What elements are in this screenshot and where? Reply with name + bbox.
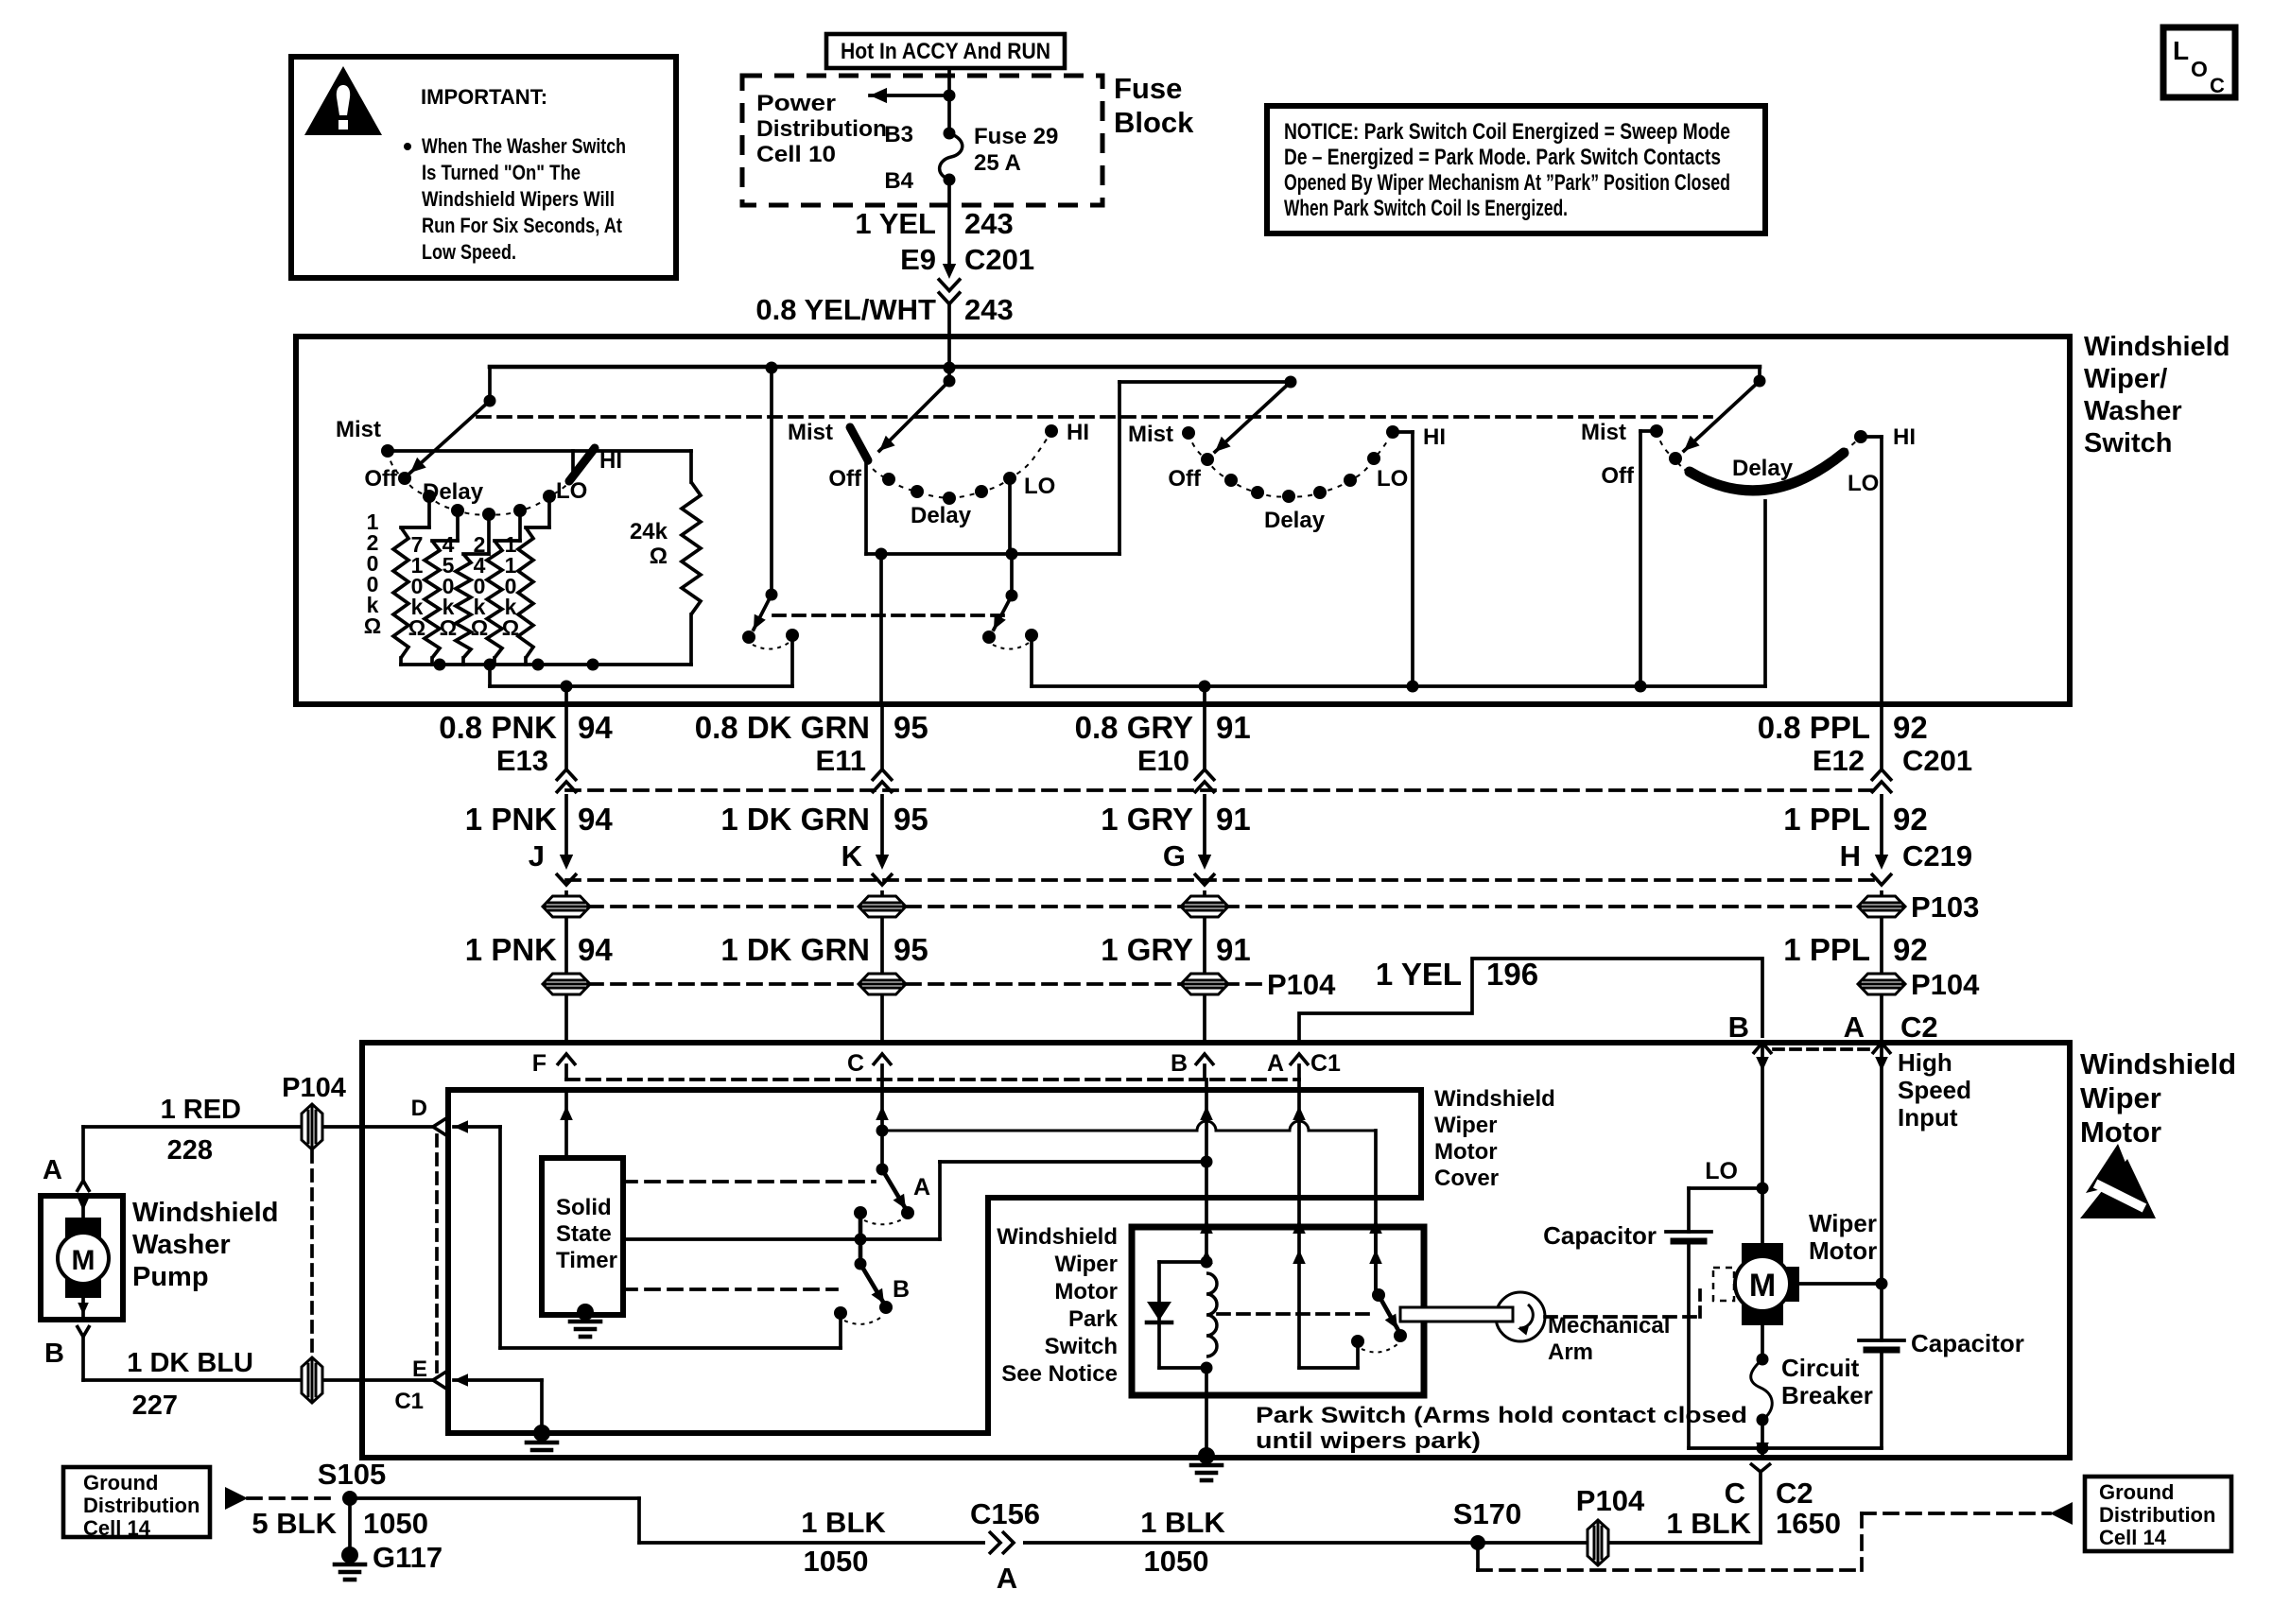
svg-text:Switch: Switch — [1045, 1334, 1118, 1359]
svg-text:D: D — [411, 1096, 427, 1121]
svg-text:High: High — [1898, 1048, 1952, 1077]
svg-text:Ω: Ω — [364, 613, 381, 638]
svg-text:C: C — [1725, 1477, 1745, 1510]
svg-text:Off: Off — [1601, 463, 1635, 489]
svg-text:228: 228 — [167, 1135, 213, 1166]
svg-text:Run For Six Seconds, At: Run For Six Seconds, At — [422, 214, 623, 237]
svg-text:When The Washer Switch: When The Washer Switch — [422, 134, 626, 158]
svg-text:0.8 YEL/WHT: 0.8 YEL/WHT — [755, 293, 936, 326]
svg-text:1 GRY: 1 GRY — [1101, 932, 1193, 967]
svg-text:B: B — [1728, 1011, 1749, 1044]
svg-text:Mist: Mist — [1128, 422, 1173, 447]
svg-text:Is Turned "On" The: Is Turned "On" The — [422, 161, 581, 184]
svg-text:92: 92 — [1893, 802, 1928, 837]
svg-text:E10: E10 — [1137, 744, 1189, 777]
svg-text:Capacitor: Capacitor — [1911, 1329, 2024, 1357]
svg-text:Wiper: Wiper — [1434, 1113, 1497, 1138]
svg-text:Arm: Arm — [1548, 1339, 1593, 1365]
svg-text:227: 227 — [132, 1391, 178, 1421]
svg-text:1 BLK: 1 BLK — [1666, 1507, 1751, 1540]
svg-text:C156: C156 — [970, 1497, 1040, 1530]
svg-text:P104: P104 — [282, 1073, 346, 1103]
svg-text:Windshield Wipers Will: Windshield Wipers Will — [422, 187, 615, 211]
svg-text:0.8 PNK: 0.8 PNK — [439, 710, 557, 745]
svg-text:196: 196 — [1486, 957, 1538, 992]
svg-text:243: 243 — [964, 293, 1014, 326]
svg-text:Pump: Pump — [132, 1262, 209, 1292]
svg-text:1 PPL: 1 PPL — [1783, 802, 1870, 837]
svg-text:E13: E13 — [496, 744, 548, 777]
svg-text:E12: E12 — [1813, 744, 1865, 777]
svg-text:B4: B4 — [884, 168, 913, 194]
svg-text:91: 91 — [1216, 802, 1251, 837]
svg-text:Ground: Ground — [83, 1471, 158, 1494]
svg-text:C1: C1 — [394, 1389, 424, 1414]
svg-text:95: 95 — [894, 932, 928, 967]
svg-text:E11: E11 — [816, 744, 866, 777]
svg-text:1 PPL: 1 PPL — [1783, 932, 1870, 967]
svg-text:Windshield: Windshield — [997, 1224, 1118, 1250]
svg-text:LO: LO — [1377, 466, 1408, 492]
svg-text:Park: Park — [1068, 1306, 1119, 1332]
svg-text:Wiper: Wiper — [2080, 1081, 2161, 1114]
svg-text:Low Speed.: Low Speed. — [422, 240, 516, 264]
svg-text:Windshield: Windshield — [2084, 332, 2230, 362]
svg-text:Power: Power — [756, 91, 836, 116]
svg-text:92: 92 — [1893, 932, 1928, 967]
svg-text:Off: Off — [1168, 466, 1202, 492]
svg-text:Motor: Motor — [1054, 1279, 1118, 1304]
svg-text:S170: S170 — [1453, 1497, 1521, 1530]
svg-text:1650: 1650 — [1776, 1507, 1841, 1540]
svg-text:HI: HI — [1423, 424, 1446, 450]
svg-text:1 DK BLU: 1 DK BLU — [127, 1348, 253, 1378]
svg-text:25 A: 25 A — [974, 150, 1021, 176]
svg-text:1 BLK: 1 BLK — [1140, 1506, 1225, 1539]
svg-text:Wiper/: Wiper/ — [2084, 364, 2167, 394]
svg-text:E: E — [412, 1356, 427, 1382]
svg-text:Breaker: Breaker — [1781, 1381, 1873, 1409]
svg-text:C201: C201 — [964, 243, 1034, 276]
svg-text:G: G — [1163, 839, 1186, 872]
svg-text:Delay: Delay — [1264, 508, 1326, 533]
svg-text:1 BLK: 1 BLK — [801, 1506, 886, 1539]
svg-text:HI: HI — [1067, 420, 1089, 445]
svg-text:State: State — [556, 1221, 612, 1247]
svg-text:Circuit: Circuit — [1781, 1354, 1860, 1382]
svg-text:S105: S105 — [318, 1458, 386, 1491]
svg-text:Off: Off — [364, 466, 398, 492]
svg-text:until wipers park): until wipers park) — [1256, 1428, 1481, 1454]
svg-text:IMPORTANT:: IMPORTANT: — [421, 85, 547, 109]
svg-text:Capacitor: Capacitor — [1543, 1221, 1657, 1250]
svg-text:J: J — [529, 839, 545, 872]
svg-text:Cell 14: Cell 14 — [83, 1516, 151, 1540]
svg-text:Fuse 29: Fuse 29 — [974, 124, 1058, 149]
svg-text:91: 91 — [1216, 932, 1251, 967]
svg-text:Cell 14: Cell 14 — [2099, 1526, 2167, 1549]
svg-text:Mist: Mist — [788, 420, 833, 445]
svg-text:C: C — [2210, 74, 2225, 97]
svg-text:Ω: Ω — [408, 615, 425, 640]
svg-text:Solid: Solid — [556, 1195, 612, 1220]
svg-text:E9: E9 — [900, 243, 936, 276]
svg-text:A: A — [43, 1155, 62, 1185]
svg-text:O: O — [2191, 57, 2208, 81]
svg-text:1 PNK: 1 PNK — [465, 802, 557, 837]
svg-text:K: K — [842, 839, 863, 872]
svg-text:LO: LO — [1848, 471, 1879, 496]
svg-text:B: B — [44, 1339, 64, 1369]
svg-text:Delay: Delay — [911, 503, 972, 528]
svg-text:Mist: Mist — [1581, 420, 1626, 445]
svg-text:A: A — [913, 1174, 930, 1201]
svg-text:A: A — [997, 1562, 1017, 1595]
svg-text:Park Switch (Arms hold contact: Park Switch (Arms hold contact closed — [1256, 1403, 1747, 1428]
svg-text:Distribution: Distribution — [2099, 1503, 2215, 1527]
svg-text:0.8 PPL: 0.8 PPL — [1758, 710, 1870, 745]
svg-text:92: 92 — [1893, 710, 1928, 745]
svg-text:Switch: Switch — [2084, 428, 2172, 458]
svg-text:M: M — [72, 1245, 95, 1276]
svg-text:1 RED: 1 RED — [161, 1095, 241, 1125]
svg-text:Motor: Motor — [1434, 1139, 1498, 1165]
svg-text:0.8 GRY: 0.8 GRY — [1075, 710, 1193, 745]
svg-text:Block: Block — [1114, 106, 1194, 139]
svg-text:C: C — [847, 1050, 864, 1077]
svg-text:95: 95 — [894, 710, 928, 745]
svg-text:1 YEL: 1 YEL — [855, 207, 936, 240]
svg-text:1050: 1050 — [1144, 1545, 1209, 1578]
svg-text:C2: C2 — [1900, 1011, 1938, 1044]
svg-text:Cover: Cover — [1434, 1166, 1499, 1191]
svg-text:Washer: Washer — [2084, 396, 2182, 426]
svg-text:NOTICE: Park Switch Coil Energ: NOTICE: Park Switch Coil Energized = Swe… — [1284, 119, 1730, 145]
svg-text:C2: C2 — [1776, 1477, 1813, 1510]
svg-text:B: B — [1171, 1050, 1188, 1077]
svg-text:Windshield: Windshield — [1434, 1086, 1555, 1112]
svg-text:243: 243 — [964, 207, 1014, 240]
svg-text:Distribution: Distribution — [756, 116, 887, 142]
svg-text:0.8 DK GRN: 0.8 DK GRN — [695, 710, 870, 745]
svg-text:Motor: Motor — [1809, 1236, 1877, 1265]
svg-text:C1: C1 — [1310, 1050, 1341, 1077]
svg-text:1 DK GRN: 1 DK GRN — [720, 932, 870, 967]
svg-text:P103: P103 — [1911, 890, 1979, 924]
svg-text:Fuse: Fuse — [1114, 72, 1182, 105]
svg-text:M: M — [1749, 1268, 1776, 1304]
svg-text:Delay: Delay — [1732, 456, 1794, 481]
svg-text:LO: LO — [1024, 474, 1055, 499]
svg-text:Speed: Speed — [1898, 1076, 1971, 1104]
svg-text:Input: Input — [1898, 1103, 1958, 1132]
svg-text:95: 95 — [894, 802, 928, 837]
svg-text:Opened By Wiper Mechanism At ”: Opened By Wiper Mechanism At ”Park” Posi… — [1284, 170, 1730, 196]
svg-text:Ground: Ground — [2099, 1480, 2174, 1504]
svg-text:Hot In ACCY And RUN: Hot In ACCY And RUN — [841, 39, 1050, 64]
svg-text:Ω: Ω — [440, 615, 457, 640]
svg-text:B: B — [893, 1276, 910, 1303]
svg-text:P104: P104 — [1267, 968, 1336, 1001]
svg-text:Washer: Washer — [132, 1230, 231, 1260]
svg-text:Mist: Mist — [336, 417, 381, 442]
svg-text:LO: LO — [1705, 1158, 1738, 1184]
svg-text:Ω: Ω — [650, 544, 668, 569]
svg-text:94: 94 — [578, 710, 613, 745]
svg-text:H: H — [1840, 839, 1861, 872]
svg-text:1 PNK: 1 PNK — [465, 932, 557, 967]
svg-text:Ω: Ω — [502, 615, 519, 640]
svg-text:HI: HI — [1893, 424, 1916, 450]
svg-text:91: 91 — [1216, 710, 1251, 745]
svg-text:94: 94 — [578, 802, 613, 837]
svg-text:When Park Switch Coil Is Energ: When Park Switch Coil Is Energized. — [1284, 196, 1568, 221]
svg-text:Distribution: Distribution — [83, 1494, 200, 1517]
svg-text:1050: 1050 — [804, 1545, 869, 1578]
svg-text:A: A — [1267, 1050, 1284, 1077]
svg-text:Delay: Delay — [423, 479, 484, 505]
svg-text:B3: B3 — [884, 122, 913, 147]
svg-text:Off: Off — [828, 466, 862, 492]
svg-text:P104: P104 — [1911, 968, 1980, 1001]
svg-text:1 GRY: 1 GRY — [1101, 802, 1193, 837]
svg-text:Timer: Timer — [556, 1248, 617, 1273]
svg-text:1 YEL: 1 YEL — [1376, 957, 1462, 992]
svg-text:Windshield: Windshield — [2080, 1047, 2236, 1080]
svg-text:24k: 24k — [630, 519, 668, 544]
svg-text:De – Energized = Park Mode. Pa: De – Energized = Park Mode. Park Switch … — [1284, 145, 1721, 170]
svg-text:Motor: Motor — [2080, 1115, 2161, 1149]
svg-text:5 BLK: 5 BLK — [252, 1507, 337, 1540]
svg-text:F: F — [532, 1050, 547, 1077]
svg-text:G117: G117 — [373, 1541, 442, 1574]
svg-text:1 DK GRN: 1 DK GRN — [720, 802, 870, 837]
svg-text:Cell 10: Cell 10 — [756, 142, 836, 167]
svg-text:Wiper: Wiper — [1055, 1252, 1118, 1277]
svg-text:Ω: Ω — [471, 615, 488, 640]
svg-text:A: A — [1844, 1011, 1865, 1044]
svg-text:Wiper: Wiper — [1809, 1209, 1877, 1237]
svg-text:C201: C201 — [1902, 744, 1972, 777]
svg-text:P104: P104 — [1576, 1484, 1645, 1517]
svg-text:1050: 1050 — [363, 1507, 428, 1540]
svg-text:Windshield: Windshield — [132, 1198, 278, 1228]
svg-text:94: 94 — [578, 932, 613, 967]
svg-text:L: L — [2173, 36, 2189, 65]
svg-text:See Notice: See Notice — [1001, 1361, 1118, 1387]
svg-text:C219: C219 — [1902, 839, 1972, 872]
